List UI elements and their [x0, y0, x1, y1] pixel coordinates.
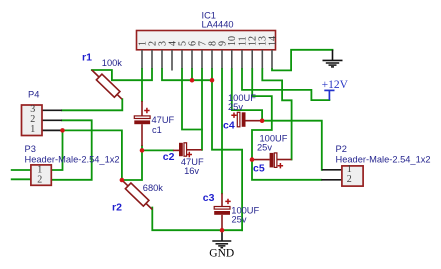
svg-text:25v: 25v [257, 142, 272, 152]
wire junction c1 down to r2 junction [122, 150, 142, 180]
wire P4 pin1 down to P3 pin1 [51, 130, 62, 170]
junction dot P4 pin1 [60, 128, 65, 133]
op-amp/power-amp IC1 LA4440 body [137, 31, 276, 50]
P2 pin1 stub [322, 169, 342, 171]
header pin stubs (black) [42, 110, 342, 180]
svg-text:c4: c4 [223, 120, 235, 132]
wire pin1 to c1 [141, 69, 143, 101]
power symbol +12V [324, 90, 334, 100]
junction dot c1 bottom [140, 148, 145, 153]
wire P4 pin2 to P3 pin2 [51, 120, 91, 180]
junction dot c5 [250, 157, 255, 162]
svg-text:16v: 16v [184, 166, 199, 176]
svg-text:c2: c2 [163, 151, 175, 163]
svg-text:2: 2 [347, 174, 352, 185]
wire P3 left pin2 [12, 178, 31, 180]
wire pin10 to c4 junction [232, 69, 262, 121]
svg-text:LA4440: LA4440 [202, 19, 234, 29]
header P4 [22, 104, 43, 136]
wire pin14 to ground top right [272, 50, 333, 71]
junction dot pin8 [210, 78, 215, 83]
ground symbol (top right, pin14 net) [323, 50, 343, 67]
wire r2 bottom to gnd rail [152, 208, 242, 231]
wire pin13 to c5 right [262, 69, 291, 160]
P4 pin3 stub [42, 109, 62, 111]
wire pin5 to pin7 vertical [182, 69, 202, 130]
svg-text:c5: c5 [253, 163, 265, 175]
wire pin11 to +12V [242, 69, 329, 100]
svg-text:Header-Male-2.54_1x2: Header-Male-2.54_1x2 [336, 154, 431, 164]
wire c1 bottom to junction [141, 146, 143, 150]
header P2 [342, 164, 363, 186]
junction dot r2 top [120, 178, 125, 183]
svg-text:GND: GND [209, 247, 234, 259]
junction dot c3 bottom [220, 228, 225, 233]
wires (green nets) [12, 50, 333, 230]
svg-text:c1: c1 [152, 125, 162, 135]
capacitor c2 [173, 143, 202, 157]
svg-text:25v: 25v [228, 102, 243, 112]
svg-text:25v: 25v [232, 215, 247, 225]
svg-text:47UF: 47UF [152, 115, 175, 125]
wire pin3 to pins 6,8 [162, 69, 212, 80]
wire junction c1 to c2 left [142, 149, 173, 151]
svg-text:P2: P2 [336, 144, 347, 154]
wire P3 left pin1 [12, 169, 31, 171]
P2 pin2 stub [321, 179, 342, 181]
capacitor c4 [231, 112, 262, 127]
resistor r2 [122, 180, 152, 210]
svg-text:c3: c3 [203, 192, 215, 204]
wire pin12 staircase to c5 junction and P2 pin2 [252, 69, 321, 180]
svg-text:680k: 680k [143, 183, 164, 193]
wire P4 pin3 to r1 bottom [62, 99, 122, 110]
ground symbol GND (bottom) [212, 230, 231, 248]
wire pin7 to c2 right [201, 69, 203, 150]
IC1 pin numbers 1-14 [137, 36, 278, 46]
wire pin8 to gnd rail [212, 69, 242, 230]
svg-text:1: 1 [30, 124, 35, 135]
header P3 [31, 164, 51, 185]
wire c4 junction to P2 pin1 [262, 121, 322, 170]
capacitor c5 [252, 153, 292, 169]
wire pin9 to c3 top [221, 69, 223, 193]
wire r1 top to pin2 [92, 69, 152, 80]
junction dot pin6 [190, 78, 195, 83]
svg-text:Header-Male-2.54_1x2: Header-Male-2.54_1x2 [25, 154, 120, 164]
capacitor c3 [214, 193, 231, 230]
capacitor c1 [134, 101, 150, 146]
svg-text:P3: P3 [25, 144, 36, 154]
svg-text:+12V: +12V [322, 79, 349, 91]
svg-text:r1: r1 [82, 52, 92, 64]
wire pin6 to junction [191, 69, 193, 80]
wire r2 junction up to P4 pin1 [63, 130, 122, 180]
svg-text:r2: r2 [112, 202, 122, 214]
svg-text:P4: P4 [28, 89, 39, 99]
IC1 pin stubs (pins 1-14) [142, 50, 272, 71]
resistor r1 [92, 70, 122, 99]
P4 pin2 stub [42, 119, 62, 121]
svg-text:14: 14 [267, 36, 278, 46]
svg-text:100k: 100k [102, 58, 123, 68]
junction dot c4 [260, 118, 265, 123]
svg-text:2: 2 [37, 174, 42, 185]
P4 pin1 stub [42, 129, 63, 131]
